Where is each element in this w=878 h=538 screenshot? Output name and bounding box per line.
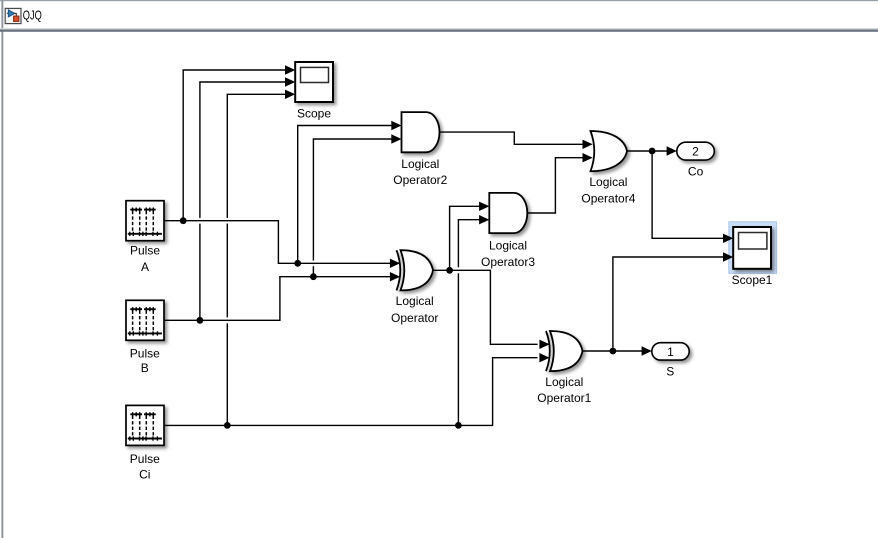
output port Co (2) — [677, 142, 715, 160]
svg-text:Logical: Logical — [545, 375, 583, 389]
junction dot S branch — [610, 348, 617, 355]
svg-text:Pulse: Pulse — [130, 347, 160, 361]
arrowhead AND2 in2 — [391, 134, 401, 143]
wire Pulse A to XOR in1 — [164, 221, 399, 264]
arrowhead port Co in — [667, 146, 677, 155]
junction dot A-AND2 — [294, 260, 301, 267]
arrowhead Scope in1 — [285, 65, 295, 74]
svg-text:Operator1: Operator1 — [537, 391, 591, 405]
svg-text:Logical: Logical — [489, 239, 527, 253]
wire branch Ci up to Scope in3 — [227, 94, 286, 425]
svg-text:1: 1 — [667, 345, 674, 359]
svg-text:Logical: Logical — [589, 175, 627, 189]
left border line — [1, 1, 3, 538]
arrowhead Scope in2 — [285, 77, 295, 86]
junction dot B-AND2 — [310, 273, 317, 280]
wire OR4 out to port Co — [627, 150, 668, 152]
wire branch B up to Scope in2 — [200, 82, 286, 320]
label Scope — [297, 107, 331, 121]
logic gate Logical Operator2 (AND) — [402, 112, 440, 152]
label Co — [688, 165, 704, 179]
junction dot XOR out — [446, 267, 453, 274]
junction dot Ci out — [224, 422, 231, 429]
junction dot B out — [197, 317, 204, 324]
arrowhead Scope1 in2 — [723, 252, 733, 261]
label Logical Operator3 — [481, 239, 535, 269]
logic gate Logical Operator3 (AND) — [489, 193, 527, 233]
logic gate Logical Operator (XOR) — [397, 250, 434, 290]
label Logical Operator1 — [537, 375, 591, 405]
wire AND3 out to OR4 in2 — [527, 158, 583, 213]
wire Pulse Ci to XOR1 in2 — [164, 358, 538, 426]
logic gate Logical Operator4 (OR) — [591, 131, 628, 171]
label Pulse Ci — [130, 452, 160, 482]
arrowhead AND3 in2 — [479, 215, 489, 224]
svg-text:Operator2: Operator2 — [393, 173, 447, 187]
model icon button — [5, 8, 21, 23]
arrowhead port S in — [642, 346, 652, 355]
svg-text:Pulse: Pulse — [130, 243, 160, 257]
block Pulse A — [126, 201, 164, 241]
label Scope1 — [732, 273, 773, 287]
label Logical Operator4 — [581, 175, 635, 205]
label Logical Operator — [391, 294, 438, 325]
wire Pulse B to XOR in2 — [164, 277, 399, 321]
svg-text:A: A — [141, 260, 149, 274]
svg-text:Operator3: Operator3 — [481, 255, 535, 269]
wire XOR1 out to port S — [583, 350, 643, 352]
svg-text:Co: Co — [688, 165, 704, 179]
output port S (1) — [652, 343, 689, 360]
wire AND2 out to OR4 in1 — [439, 132, 583, 144]
wire XOR out to XOR1 in1 — [433, 270, 538, 344]
block Scope — [295, 62, 333, 102]
arrowhead AND2 in1 — [391, 121, 401, 130]
logic gate Logical Operator1 (XOR) — [546, 331, 583, 371]
svg-text:Pulse: Pulse — [130, 452, 160, 466]
svg-text:QJQ: QJQ — [23, 7, 42, 22]
arrowhead Scope in3 — [285, 90, 295, 99]
wire branch B up to AND2 in2 — [313, 139, 392, 277]
block Pulse Ci — [126, 405, 164, 445]
wire branch Ci up to AND3 in2 — [458, 220, 480, 426]
junction dot A out — [180, 217, 187, 224]
wire branch XOR out up to AND3 in1 — [450, 206, 480, 270]
arrowhead XOR in2 — [390, 272, 400, 281]
arrowhead AND3 in1 — [479, 202, 489, 211]
pin number 1 — [667, 345, 674, 359]
top border line — [0, 0, 878, 1]
svg-text:Scope1: Scope1 — [732, 273, 773, 287]
arrowhead XOR in1 — [390, 259, 400, 268]
arrowhead XOR1 in2 — [539, 353, 549, 362]
label S — [666, 365, 674, 379]
pin number 2 — [692, 145, 699, 159]
breadcrumb bar separator — [0, 28, 878, 32]
svg-text:Scope: Scope — [297, 107, 331, 121]
svg-text:Operator: Operator — [391, 311, 438, 325]
wire branch S up to Scope1 in2 — [613, 257, 724, 351]
junction dot Co branch — [649, 148, 656, 155]
arrowhead Scope1 in1 — [723, 234, 733, 243]
wire branch A up to Scope in1 — [183, 70, 286, 221]
arrowhead OR4 in1 — [583, 140, 593, 149]
svg-text:Ci: Ci — [139, 468, 150, 482]
svg-text:B: B — [141, 361, 149, 375]
wire branch Co down to Scope1 in1 — [652, 151, 724, 238]
wire branch A up to AND2 in1 — [298, 126, 393, 264]
svg-text:S: S — [666, 365, 674, 379]
block Pulse B — [126, 300, 164, 340]
junction dot Ci-AND3 — [455, 422, 462, 429]
svg-text:Operator4: Operator4 — [581, 191, 635, 205]
block Scope1 (selected) — [729, 222, 777, 274]
label Pulse A — [130, 243, 160, 273]
svg-text:2: 2 — [692, 145, 699, 159]
arrowhead XOR1 in1 — [539, 340, 549, 349]
label Logical Operator2 — [393, 157, 447, 187]
svg-text:Logical: Logical — [396, 294, 434, 308]
label Pulse B — [130, 347, 160, 376]
arrowhead OR4 in2 — [583, 153, 593, 162]
svg-text:Logical: Logical — [401, 157, 439, 171]
